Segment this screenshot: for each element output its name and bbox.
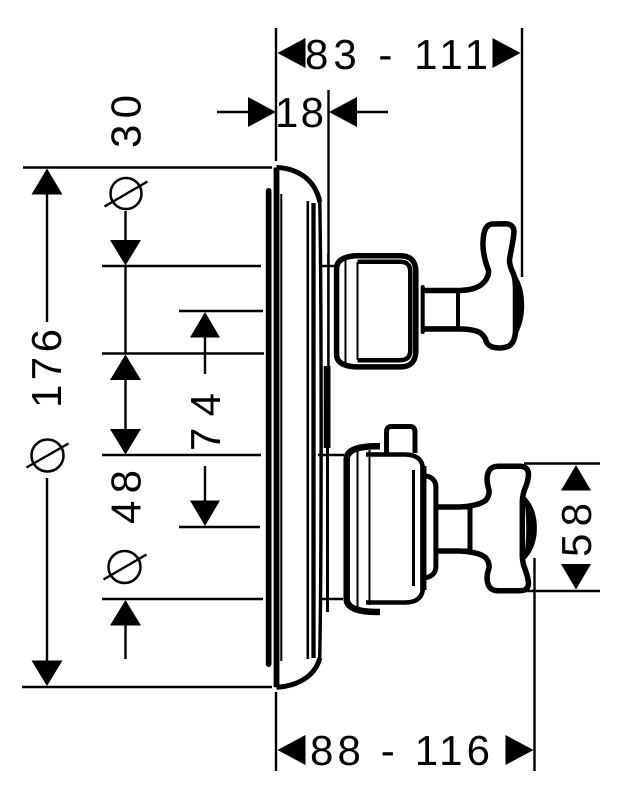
svg-text:176: 176 — [23, 329, 70, 408]
svg-text:1 8: 1 8 — [275, 89, 324, 136]
